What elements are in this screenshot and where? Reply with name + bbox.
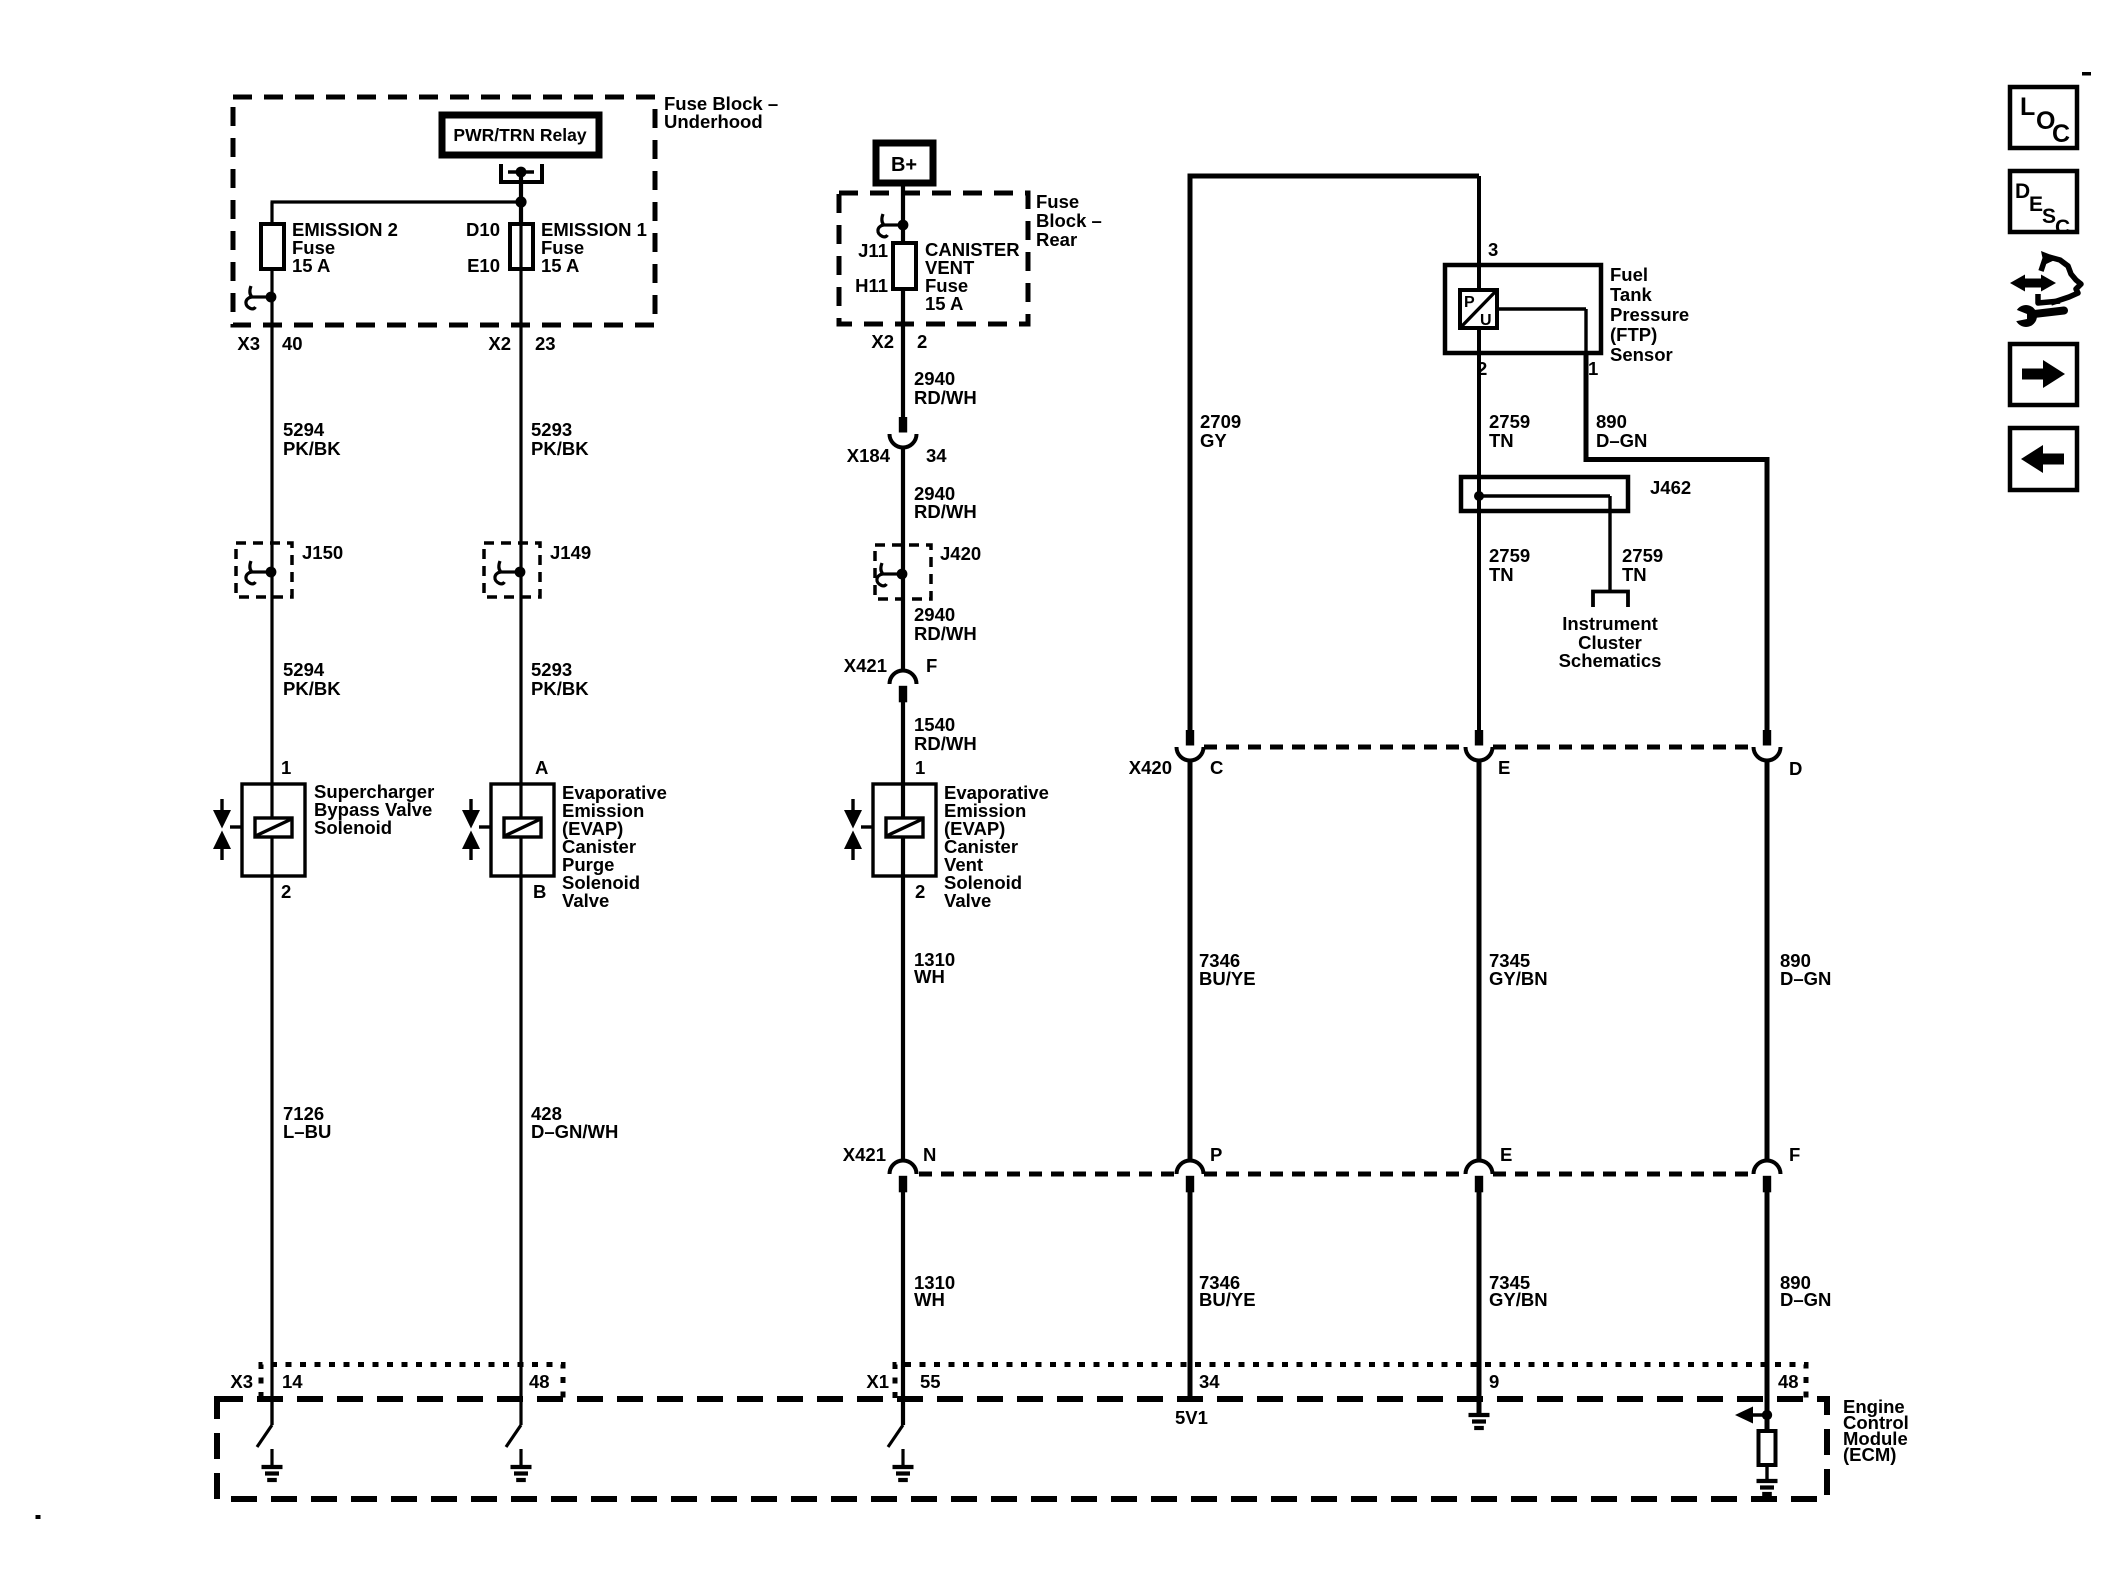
nav icon vehicle outline with wrench [2038, 256, 2081, 303]
svg-text:1: 1 [1588, 358, 1598, 379]
svg-text:Fuse: Fuse [1036, 191, 1079, 212]
solenoid: Supercharger Bypass Valve Solenoid [213, 784, 305, 876]
svg-text:40: 40 [282, 333, 303, 354]
wire col6 X421 to ECM [1765, 1192, 1770, 1431]
splice J420 dashed box [875, 545, 931, 599]
svg-text:N: N [923, 1144, 936, 1165]
svg-text:Pressure: Pressure [1610, 304, 1689, 325]
svg-text:48: 48 [1778, 1371, 1799, 1392]
splice J149 dashed box [484, 543, 540, 597]
svg-text:D–GN: D–GN [1780, 968, 1831, 989]
svg-text:GY: GY [1200, 430, 1227, 451]
svg-text:(FTP): (FTP) [1610, 324, 1657, 345]
svg-text:15 A: 15 A [541, 255, 579, 276]
svg-text:Valve: Valve [944, 890, 991, 911]
wire col1 fuse to clip [270, 270, 273, 297]
junction node dot [515, 196, 526, 207]
wire col6 X420 to X421 [1765, 759, 1770, 1162]
wire B+ to fuse [901, 183, 905, 241]
ECM driver switch pin 48 col2 [519, 1402, 522, 1425]
svg-text:2709: 2709 [1200, 411, 1241, 432]
wire col3 fuse down [901, 290, 905, 417]
FTP P/U transducer symbol [1460, 290, 1497, 328]
svg-text:A: A [535, 757, 548, 778]
svg-text:15 A: 15 A [292, 255, 330, 276]
fuse EMISSION 1 15A [510, 224, 533, 269]
tiny scan mark bottom left [36, 1515, 41, 1519]
wrench of vehicle icon [2030, 311, 2064, 315]
svg-text:Sensor: Sensor [1610, 344, 1673, 365]
ground pin 48 col6 [1765, 1465, 1768, 1481]
solenoid: EVAP Canister Vent Solenoid Valve [844, 784, 936, 876]
ground pin 9 [1477, 1402, 1482, 1414]
svg-text:E10: E10 [467, 255, 500, 276]
svg-text:D10: D10 [466, 219, 500, 240]
svg-text:L–BU: L–BU [283, 1121, 331, 1142]
svg-text:E: E [1498, 757, 1510, 778]
tiny scan mark top right [2082, 72, 2091, 76]
svg-text:RD/WH: RD/WH [914, 387, 977, 408]
connector X420 pin D [1754, 730, 1781, 761]
svg-text:PK/BK: PK/BK [283, 438, 341, 459]
wire col1 from junction to fuse [270, 202, 273, 222]
J462 branch to instrument cluster [1479, 494, 1610, 497]
svg-text:2940: 2940 [914, 368, 955, 389]
svg-text:Block –: Block – [1036, 210, 1102, 231]
connector X421 pin N [890, 1161, 917, 1193]
junction dot in J462 [1474, 491, 1484, 501]
svg-text:2940: 2940 [914, 604, 955, 625]
svg-text:2: 2 [281, 881, 291, 902]
svg-text:E: E [1500, 1144, 1512, 1165]
svg-text:9: 9 [1489, 1371, 1499, 1392]
svg-text:RD/WH: RD/WH [914, 501, 977, 522]
ground pin 14 [270, 1449, 273, 1467]
svg-text:X3: X3 [237, 333, 260, 354]
svg-text:48: 48 [529, 1371, 550, 1392]
svg-text:D: D [2015, 180, 2030, 203]
svg-text:X184: X184 [847, 445, 891, 466]
connector strip X3 dotted box [261, 1365, 563, 1399]
svg-text:3: 3 [1488, 239, 1498, 260]
svg-text:WH: WH [914, 966, 945, 987]
wire 890 D-GN from FTP pin 1 [1584, 353, 1589, 462]
svg-text:C: C [2052, 120, 2070, 148]
wire col3 to J420 [901, 446, 905, 671]
ECM dashed box [217, 1399, 1827, 1499]
svg-text:X421: X421 [844, 655, 887, 676]
relay pin bracket [501, 164, 542, 182]
svg-text:5294: 5294 [283, 419, 325, 440]
svg-text:E: E [2029, 193, 2043, 216]
B+ power box [876, 143, 933, 183]
svg-text:J420: J420 [940, 543, 981, 564]
fuse EMISSION 2 15A [261, 224, 284, 269]
svg-text:5293: 5293 [531, 659, 572, 680]
svg-text:TN: TN [1622, 564, 1647, 585]
svg-text:D–GN: D–GN [1780, 1289, 1831, 1310]
fuse block underhood dashed box [233, 97, 655, 325]
svg-text:Rear: Rear [1036, 229, 1077, 250]
svg-text:D: D [1789, 758, 1802, 779]
fuse clip terminal rear [878, 214, 908, 237]
ECM arrow pin 48 [1744, 1413, 1767, 1416]
svg-text:TN: TN [1489, 564, 1514, 585]
svg-text:2: 2 [917, 331, 927, 352]
svg-text:23: 23 [535, 333, 556, 354]
svg-text:GY/BN: GY/BN [1489, 968, 1548, 989]
svg-text:BU/YE: BU/YE [1199, 1289, 1256, 1310]
wire horizontal relay to EMISSION 2 fuse [271, 200, 522, 203]
connector strip X1 dotted box [895, 1365, 1806, 1399]
svg-text:J11: J11 [858, 240, 888, 261]
wire 2759 TN from FTP pin 2 [1477, 328, 1481, 477]
svg-text:2759: 2759 [1622, 545, 1663, 566]
wire col4 X420 to X421 [1188, 759, 1193, 1162]
svg-text:X420: X420 [1129, 757, 1172, 778]
svg-text:U: U [1480, 312, 1492, 329]
svg-text:X2: X2 [871, 331, 894, 352]
svg-text:D–GN/WH: D–GN/WH [531, 1121, 618, 1142]
relay box PWR/TRN Relay [442, 115, 599, 155]
svg-text:F: F [1789, 1144, 1800, 1165]
ground pin 55 [901, 1449, 904, 1467]
wire col5 X420 to X421 [1477, 759, 1482, 1162]
fuse CANISTER VENT 15A [893, 243, 916, 289]
wire col5 X421 to ECM [1477, 1192, 1482, 1414]
svg-text:1540: 1540 [914, 714, 955, 735]
svg-text:P: P [1210, 1144, 1222, 1165]
ECM driver switch pin 55 [901, 1402, 904, 1425]
svg-text:55: 55 [920, 1371, 941, 1392]
connector X420 pin E [1466, 730, 1493, 761]
connector X420 pin C [1177, 730, 1204, 761]
connector X421 pin P [1177, 1161, 1204, 1193]
svg-text:890: 890 [1596, 411, 1627, 432]
svg-text:Underhood: Underhood [664, 111, 763, 132]
wire relay output down [519, 172, 523, 222]
connector X421 pin F [1754, 1161, 1781, 1193]
svg-text:PK/BK: PK/BK [283, 678, 341, 699]
svg-text:PK/BK: PK/BK [531, 438, 589, 459]
connector row X420 dashed line [1204, 745, 1465, 750]
ECM pull-up node pin 48 [1762, 1410, 1772, 1420]
nav icon LOC box [2010, 87, 2077, 148]
svg-text:P: P [1464, 294, 1475, 311]
svg-text:Instrument: Instrument [1562, 613, 1658, 634]
ground pin 48 col2 [519, 1449, 522, 1467]
svg-text:S: S [2042, 205, 2056, 228]
solenoid: EVAP Canister Purge Solenoid Valve [462, 784, 554, 876]
svg-text:15 A: 15 A [925, 293, 963, 314]
fuse clip terminal col1 [246, 286, 276, 309]
svg-text:J462: J462 [1650, 477, 1691, 498]
connector row X421 dashed line [919, 1172, 1176, 1177]
wire FTP pin 3 drop [1477, 176, 1481, 290]
svg-text:PWR/TRN Relay: PWR/TRN Relay [453, 125, 586, 145]
svg-text:34: 34 [926, 445, 947, 466]
svg-text:C: C [2055, 216, 2070, 239]
wire 2709 GY top horizontal run [1188, 174, 1480, 179]
wire 2709 GY vertical col4 [1188, 174, 1193, 731]
connector X184 pin 34 [890, 417, 917, 448]
wire col3 X421 to ECM [901, 1192, 905, 1425]
connector X421 pin E [1466, 1161, 1493, 1193]
svg-text:J150: J150 [302, 542, 343, 563]
svg-text:5293: 5293 [531, 419, 572, 440]
ECM driver switch pin 14 [270, 1402, 273, 1425]
svg-text:X1: X1 [866, 1371, 889, 1392]
resistor in ECM [1759, 1431, 1776, 1465]
svg-text:14: 14 [282, 1371, 303, 1392]
fuse block rear dashed box [839, 193, 1028, 324]
svg-text:2759: 2759 [1489, 411, 1530, 432]
svg-text:L: L [2020, 93, 2035, 121]
svg-text:Schematics: Schematics [1559, 650, 1662, 671]
svg-text:Solenoid: Solenoid [314, 817, 392, 838]
svg-text:D–GN: D–GN [1596, 430, 1647, 451]
svg-text:5294: 5294 [283, 659, 325, 680]
svg-text:PK/BK: PK/BK [531, 678, 589, 699]
wire col4 X421 to ECM [1188, 1192, 1193, 1399]
svg-text:RD/WH: RD/WH [914, 733, 977, 754]
splice J150 dashed box [236, 543, 292, 597]
off-page bracket to instrument cluster [1593, 592, 1628, 608]
svg-text:GY/BN: GY/BN [1489, 1289, 1548, 1310]
svg-text:X421: X421 [843, 1144, 886, 1165]
wire col1 main run [270, 297, 273, 1425]
svg-text:X3: X3 [230, 1371, 253, 1392]
svg-text:5V1: 5V1 [1175, 1407, 1208, 1428]
svg-text:Fuel: Fuel [1610, 264, 1648, 285]
nav icon DESC box [2010, 171, 2077, 232]
svg-text:2: 2 [915, 881, 925, 902]
svg-text:C: C [1210, 757, 1223, 778]
svg-text:TN: TN [1489, 430, 1514, 451]
svg-text:F: F [926, 655, 937, 676]
svg-text:BU/YE: BU/YE [1199, 968, 1256, 989]
svg-text:Valve: Valve [562, 890, 609, 911]
svg-text:(ECM): (ECM) [1843, 1444, 1896, 1465]
svg-text:H11: H11 [855, 275, 888, 296]
wire col3 to solenoid 3 [901, 701, 905, 1162]
svg-text:J149: J149 [550, 542, 591, 563]
svg-text:RD/WH: RD/WH [914, 623, 977, 644]
wire col5 through J462 down to X420 E [1477, 328, 1481, 730]
svg-text:34: 34 [1199, 1371, 1220, 1392]
FTP internal line to pin 1 [1497, 307, 1586, 310]
svg-text:1: 1 [915, 757, 925, 778]
svg-text:X2: X2 [488, 333, 511, 354]
col2: wire fuse to main [519, 222, 522, 1399]
double arrow of vehicle icon [2021, 279, 2045, 288]
splice J462 box [1461, 477, 1628, 511]
svg-text:WH: WH [914, 1289, 945, 1310]
svg-text:B: B [533, 881, 546, 902]
svg-text:2759: 2759 [1489, 545, 1530, 566]
nav icon back arrow box [2010, 428, 2077, 490]
svg-text:1: 1 [281, 757, 291, 778]
svg-text:Tank: Tank [1610, 284, 1653, 305]
svg-text:B+: B+ [891, 154, 917, 176]
FTP sensor box [1445, 265, 1601, 353]
nav icon next arrow box [2010, 344, 2077, 405]
